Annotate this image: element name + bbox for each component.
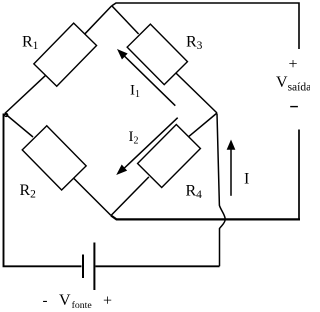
wire: top node to Vsaida + terminal [112,3,300,49]
resistor R2 [22,126,86,190]
current arrow I1 [125,56,176,106]
battery V_fonte: short (-) bar [82,255,84,279]
wire: R2 to bottom node [74,178,111,215]
wire: Vsaida - terminal vertical [298,130,300,220]
resistor R1 [34,23,97,86]
resistor R4 [138,125,201,188]
node: left node hook [5,113,8,116]
wire: left node down to battery [4,114,82,267]
svg-text:+: + [103,293,112,310]
resistor R3 [127,24,187,84]
svg-text:+: + [288,56,297,73]
label - (Vsaida negative) [290,106,298,108]
wire: battery + to riser [96,265,220,267]
wire: R3 to right node [176,73,217,113]
battery V_fonte: long (+) bar [93,243,95,291]
wire: R4 to right node [188,113,217,137]
wire: left node to R2 [5,114,33,138]
current arrow I2 [124,118,177,168]
current arrow I [230,149,232,196]
wire: R1 to left node [5,75,46,113]
svg-text:-: - [43,293,48,309]
wire: top node to R1 [85,6,112,34]
wire: bottom node to Vsaida - (output wire) [111,216,300,220]
wire: top node to R3 [112,6,139,34]
wire: riser from battery to right node with hop over output wire [217,114,225,267]
svg-text:I: I [244,171,249,188]
wire: bottom node to R4 [111,177,149,216]
